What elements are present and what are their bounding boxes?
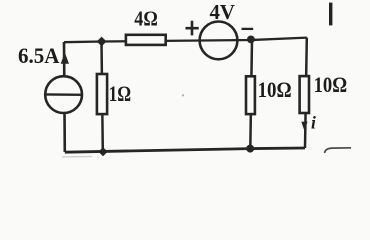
svg-text:1Ω: 1Ω xyxy=(109,81,132,106)
svg-text:10Ω: 10Ω xyxy=(314,72,348,97)
svg-text:i: i xyxy=(311,113,316,133)
svg-text:4V: 4V xyxy=(210,0,236,24)
svg-text:6.5A: 6.5A xyxy=(18,43,60,68)
svg-text:4Ω: 4Ω xyxy=(134,7,158,31)
svg-text:10Ω: 10Ω xyxy=(258,77,292,102)
